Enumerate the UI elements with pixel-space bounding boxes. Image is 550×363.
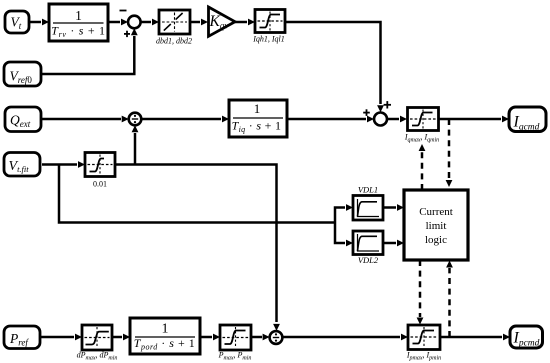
svg-text:logic: logic	[425, 234, 447, 246]
wire VDL1 to current limit logic	[383, 204, 404, 211]
wire branch to VDL2	[335, 223, 353, 247]
summing junction S2	[374, 113, 387, 126]
wire Iqmax limiter to Iqcmd	[439, 116, 510, 123]
wire Pref to rate limiter dP	[40, 334, 82, 341]
output block Iqcmd	[509, 107, 546, 133]
divider junction D1	[129, 113, 142, 126]
wire Vref0 to S1	[41, 28, 138, 74]
limiter block 0.01	[85, 153, 115, 177]
output block Ipcmd	[510, 326, 543, 349]
wire voltage limiter branch up to D1	[132, 125, 139, 164]
input block Vt_fit	[4, 153, 40, 177]
svg-text:1: 1	[254, 101, 261, 116]
limiter block Ipmax/Ipmin	[408, 325, 440, 350]
svg-text:1: 1	[75, 8, 82, 23]
wire limiter 0.01 to divider D2 (voltage rail)	[115, 165, 280, 331]
deadband block dbd	[159, 10, 190, 34]
wire Ipmax limiter to Ipcmd	[440, 334, 510, 341]
input block Qext	[5, 107, 41, 132]
wire dP limiter to Tpord block	[112, 334, 130, 341]
wire deadband to Kqv	[190, 19, 208, 26]
wire D2 to Ipmax limiter	[282, 334, 408, 341]
plus sign at S1	[124, 31, 130, 37]
limiter block Pmax/Pmin	[220, 325, 251, 350]
svg-text:0.01: 0.01	[93, 180, 107, 189]
svg-text:Current: Current	[419, 206, 453, 218]
block VDL1	[353, 196, 383, 221]
summing junction S1	[128, 16, 141, 29]
wire VDL2 to current limit logic	[383, 240, 404, 247]
input block Pref	[4, 326, 40, 349]
wire S1 to deadband	[141, 19, 159, 26]
wire Qext to divider D1	[41, 116, 129, 123]
svg-text:1: 1	[162, 321, 169, 336]
dashed wire Ipcmd feedback to current limit logic	[446, 261, 453, 338]
wire Trv block to summing junction S1	[108, 19, 128, 26]
svg-text:limit: limit	[426, 220, 447, 232]
dashed wire current limit logic to Ipmax limiter	[417, 260, 424, 325]
svg-text:dbd1, dbd2: dbd1, dbd2	[156, 37, 192, 46]
plus sign at S2 left input	[363, 109, 370, 116]
transfer function block 1/(Trv s+1)	[49, 4, 108, 41]
limiter block iqh1/iql1	[255, 10, 285, 33]
svg-text:VDL2: VDL2	[358, 255, 379, 265]
input block Vt	[5, 11, 29, 33]
wire iqh1 limiter to summing junction S2	[285, 22, 384, 112]
block VDL2	[353, 231, 383, 255]
wire branch to VDL1	[335, 204, 353, 222]
plus sign at S2 top input	[384, 101, 391, 108]
wire S2 to limiter Iqmax	[387, 116, 407, 123]
limiter block Iqmax/Iqmin	[408, 108, 439, 131]
transfer function block 1/(Tiq s+1)	[229, 100, 287, 137]
wire Tpord block to Pmax limiter	[200, 334, 220, 341]
gain block Kqv	[209, 7, 236, 36]
svg-text:VDL1: VDL1	[358, 185, 378, 195]
wire Kqv to limiter iqh1	[235, 19, 255, 26]
rate limiter block dPmax/dPmin	[82, 325, 112, 350]
svg-text:​Iqh1, Iql1: ​Iqh1, Iql1	[252, 35, 285, 44]
transfer function block 1/(Tpord s+1)	[130, 318, 200, 354]
wire Tiq block to S2	[287, 116, 374, 123]
divider junction D2	[270, 331, 283, 344]
wire Vt_fit to limiter 0.01	[42, 161, 85, 168]
wire D1 to Tiq block	[141, 116, 229, 123]
dashed wire current limit logic to Iqmax limiter	[419, 144, 426, 190]
wire Vt_fit branch to VDL blocks	[59, 165, 335, 223]
dashed wire Iqcmd feedback to current limit logic	[446, 119, 453, 187]
input block Vref0	[4, 62, 41, 86]
wire Pmax limiter to divider D2	[251, 334, 270, 341]
minus sign at S1	[120, 10, 127, 12]
wire Vt to Trv block	[29, 19, 49, 26]
block current limit logic U1	[404, 190, 468, 260]
